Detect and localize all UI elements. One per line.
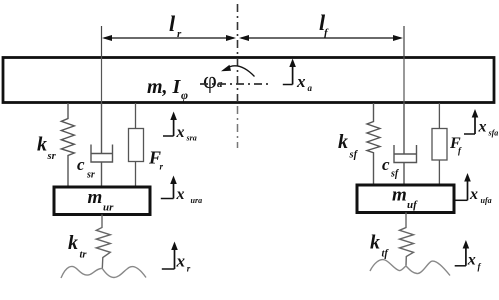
extension line rear (left): [101, 26, 103, 57]
tire spring k_tf: [400, 213, 414, 266]
centerline (vertical dash-dot): [237, 4, 239, 104]
extension line front (right): [403, 26, 405, 57]
spring k_sf: [367, 103, 380, 185]
ground wave front: [370, 260, 450, 276]
mass m_ur: [54, 187, 150, 215]
coordinate x_ura: [173, 179, 175, 199]
dimension l_r arrow line: [104, 37, 234, 39]
svg-text:x: x: [176, 186, 185, 203]
svg-text:c: c: [382, 155, 390, 174]
mass m_uf: [357, 185, 454, 213]
svg-text:ura: ura: [191, 196, 203, 205]
ground wave rear: [61, 266, 146, 278]
svg-text:ufa: ufa: [481, 196, 492, 205]
svg-text:m: m: [88, 187, 103, 208]
damper c_sr: [101, 103, 103, 154]
svg-text:k: k: [37, 134, 47, 156]
svg-text:sr: sr: [47, 151, 57, 162]
svg-text:c: c: [77, 155, 85, 174]
coordinate x_sra: [173, 115, 175, 136]
svg-text:x: x: [176, 252, 186, 271]
coordinate x_f: [465, 244, 467, 266]
svg-text:x: x: [176, 124, 185, 141]
svg-text:k: k: [338, 131, 348, 153]
beam sprung mass body: [3, 58, 494, 103]
svg-text:x: x: [467, 252, 476, 269]
svg-text:uf: uf: [407, 199, 418, 211]
svg-text:k: k: [370, 232, 380, 254]
svg-text:m: m: [392, 185, 407, 206]
svg-text:tr: tr: [80, 250, 88, 261]
coordinate x_a: [292, 62, 294, 85]
actuator F_f: [438, 103, 440, 129]
svg-text:l: l: [169, 11, 176, 36]
svg-text:x: x: [469, 186, 478, 203]
dimension l_f arrow line: [241, 37, 401, 39]
svg-text:x: x: [478, 119, 487, 136]
tire spring k_tr: [96, 215, 110, 269]
svg-text:sr: sr: [86, 170, 95, 181]
horizontal dash-dot axis at pivot: [200, 83, 272, 85]
svg-text:φ: φ: [203, 68, 217, 94]
svg-text:r: r: [177, 28, 182, 40]
damper c_sf: [403, 103, 405, 154]
svg-text:ur: ur: [103, 202, 114, 214]
svg-text:sfa: sfa: [488, 129, 499, 138]
svg-text:r: r: [187, 264, 191, 274]
svg-text:x: x: [296, 72, 306, 91]
svg-text:m, I: m, I: [147, 76, 182, 98]
actuator F_r: [135, 103, 137, 129]
coordinate x_ufa: [467, 177, 469, 201]
coordinate x_sfa: [474, 113, 476, 135]
spring k_sr: [61, 103, 74, 186]
svg-text:k: k: [68, 232, 78, 254]
svg-text:r: r: [160, 162, 164, 172]
svg-text:a: a: [308, 83, 313, 93]
svg-text:sra: sra: [186, 134, 197, 143]
svg-text:sf: sf: [349, 150, 359, 161]
svg-text:φ: φ: [181, 88, 188, 102]
coordinate x_r: [174, 245, 176, 269]
